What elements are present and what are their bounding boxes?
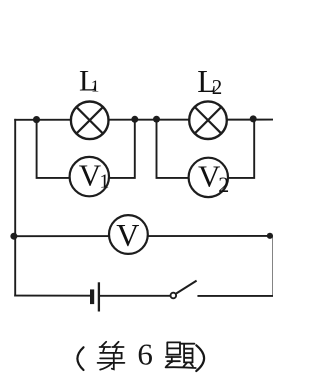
svg-text:V: V: [79, 157, 102, 192]
svg-text:V: V: [116, 217, 139, 253]
svg-text:6: 6: [137, 336, 153, 371]
svg-text:1: 1: [99, 171, 109, 193]
svg-text:2: 2: [212, 75, 223, 99]
svg-text:1: 1: [91, 77, 100, 96]
svg-text:2: 2: [218, 172, 229, 197]
